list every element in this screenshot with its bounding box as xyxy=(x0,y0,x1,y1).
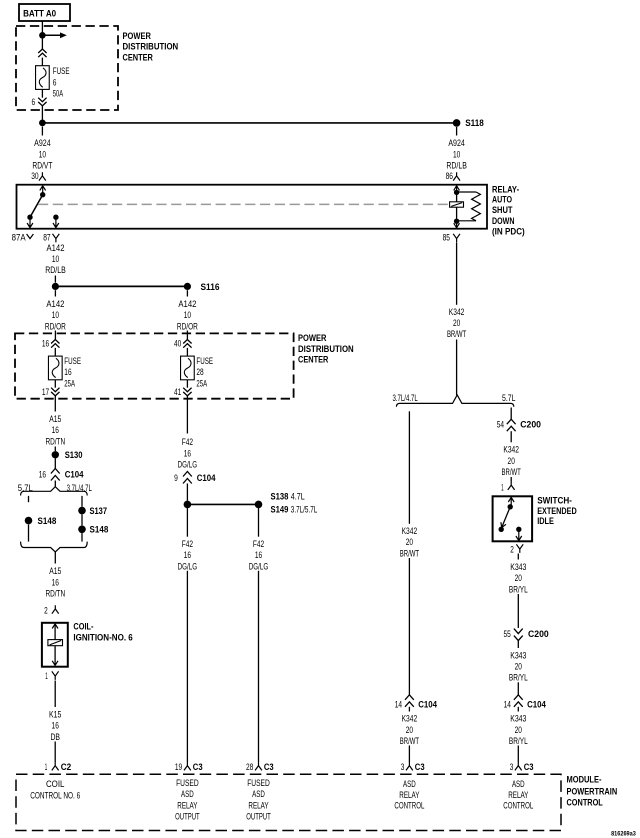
svg-text:3.7L/5.7L: 3.7L/5.7L xyxy=(291,504,318,514)
svg-text:816269a3: 816269a3 xyxy=(611,832,636,838)
svg-text:10: 10 xyxy=(453,149,460,159)
connector fork C3 pin 28 xyxy=(255,762,262,770)
options split brace right xyxy=(396,395,513,407)
connector chevrons below fuse 28 xyxy=(183,388,191,396)
svg-text:C3: C3 xyxy=(415,762,425,772)
svg-text:20: 20 xyxy=(406,725,413,735)
wire junction to connector xyxy=(41,39,43,50)
label MODULE-POWERTRAIN CONTROL xyxy=(567,775,618,808)
wire below C200 xyxy=(510,431,512,442)
relay pin 30 terminal arrow xyxy=(40,186,46,195)
svg-text:20: 20 xyxy=(515,725,522,735)
svg-text:28: 28 xyxy=(246,762,253,772)
wire to C104 pin 14 right xyxy=(517,682,519,695)
svg-text:10: 10 xyxy=(52,310,59,320)
svg-text:S138: S138 xyxy=(271,491,289,501)
svg-text:POWERTRAIN: POWERTRAIN xyxy=(567,786,618,796)
wire to PCM pin 3 right xyxy=(517,746,519,763)
switch pin 2 terminal arrow xyxy=(516,529,522,540)
wire fuse 6 out of PDC xyxy=(41,106,43,119)
svg-text:S149: S149 xyxy=(271,504,289,514)
wire to options split right xyxy=(456,340,458,396)
svg-text:F42: F42 xyxy=(253,539,264,549)
svg-text:1: 1 xyxy=(501,482,504,492)
wire stub below trunk junction xyxy=(41,127,43,136)
wire into PDC lower box right xyxy=(186,331,188,340)
wire from BATT A0 into PDC xyxy=(41,21,43,32)
coil ignition no 6 box xyxy=(42,623,68,667)
label POWER DISTRIBUTION CENTER (lower box) xyxy=(298,333,354,365)
wire label A142 10 RD/OR right xyxy=(177,299,198,331)
label asd relay control (right) xyxy=(503,779,533,811)
connector C104 chevrons far right xyxy=(514,695,523,707)
coil primary wire lower xyxy=(54,646,56,662)
svg-text:50A: 50A xyxy=(53,89,63,99)
power distribution center box (lower) xyxy=(15,333,294,398)
wire to C200 pin 55 xyxy=(517,594,519,628)
relay switch arm xyxy=(30,195,43,218)
svg-text:9: 9 xyxy=(174,473,178,483)
svg-text:BR/WT: BR/WT xyxy=(447,329,467,339)
wire below splice right xyxy=(258,508,260,537)
svg-text:A924: A924 xyxy=(448,138,465,148)
splice S116 right node xyxy=(184,283,191,290)
wire below fuse 28 xyxy=(186,380,188,388)
svg-text:S148: S148 xyxy=(38,516,57,526)
svg-text:4.7L: 4.7L xyxy=(291,491,305,501)
svg-text:A924: A924 xyxy=(34,138,51,148)
svg-text:CONTROL: CONTROL xyxy=(394,801,424,811)
svg-text:DOWN: DOWN xyxy=(492,216,515,226)
svg-text:3.7L/4.7L: 3.7L/4.7L xyxy=(67,483,92,493)
coil element symbol xyxy=(48,640,63,646)
wire below C104 left xyxy=(408,707,410,712)
svg-text:A15: A15 xyxy=(49,414,61,424)
wire label K342 20 BR/WT (lower) xyxy=(400,714,420,746)
wire stub above S130 xyxy=(54,447,56,452)
relay auto shut down box xyxy=(17,185,488,229)
svg-text:ASD: ASD xyxy=(181,789,194,799)
svg-text:3.7L/4.7L: 3.7L/4.7L xyxy=(393,393,418,403)
wire label K343 20 BR/YL (upper) xyxy=(509,562,528,594)
svg-text:C104: C104 xyxy=(197,473,216,483)
svg-text:CENTER: CENTER xyxy=(123,53,154,63)
svg-text:16: 16 xyxy=(52,425,59,435)
svg-text:25A: 25A xyxy=(196,378,207,388)
svg-text:6: 6 xyxy=(32,97,36,107)
splice S130 xyxy=(52,451,59,458)
svg-text:41: 41 xyxy=(174,387,181,397)
relay common node xyxy=(40,192,45,197)
svg-text:RD/LB: RD/LB xyxy=(446,161,467,171)
connector fork C3 pin 3 left xyxy=(406,762,413,770)
svg-text:BR/WT: BR/WT xyxy=(400,548,420,558)
relay pin 85 terminal arrow xyxy=(454,222,460,228)
svg-text:A142: A142 xyxy=(46,299,64,309)
connector fork C3 pin 19 xyxy=(184,762,191,770)
connector C200 chevrons xyxy=(507,419,516,431)
junction node under BATT A0 xyxy=(39,32,46,39)
svg-text:3: 3 xyxy=(401,762,405,772)
svg-text:16: 16 xyxy=(184,448,191,458)
trunk wire A924 horizontal xyxy=(42,122,456,124)
relay coil element xyxy=(450,202,464,207)
wire below fuse 16 xyxy=(54,380,56,388)
label RELAY-AUTO SHUT DOWN (IN PDC) xyxy=(492,184,525,236)
options split brace left xyxy=(21,487,88,496)
fuse 28 25A xyxy=(181,356,195,380)
label FUSE 6 50A xyxy=(53,66,70,98)
wire 5.7L branch to C200 xyxy=(510,408,512,420)
svg-text:20: 20 xyxy=(406,537,413,547)
svg-text:(IN PDC): (IN PDC) xyxy=(492,227,525,237)
wire into PDC lower box left xyxy=(54,331,56,340)
svg-text:RELAY: RELAY xyxy=(399,790,419,800)
wire 3.7L/4.7L branch down xyxy=(408,411,410,524)
wire label F42 16 DG/LG (top) xyxy=(178,437,198,469)
connector fork into relay pin 86 xyxy=(453,172,460,180)
fuse 16 25A xyxy=(48,356,62,380)
svg-text:AUTO: AUTO xyxy=(492,195,512,205)
connector chevrons above fuse 6 xyxy=(38,49,46,57)
svg-text:54: 54 xyxy=(497,420,504,430)
splice S137 xyxy=(78,507,86,515)
svg-text:1: 1 xyxy=(45,762,48,772)
svg-text:FUSED: FUSED xyxy=(247,778,270,788)
switch contact node bottom-left xyxy=(499,527,504,532)
svg-text:CONTROL NO. 6: CONTROL NO. 6 xyxy=(30,790,80,800)
junction node trunk left xyxy=(39,120,46,127)
svg-text:RELAY: RELAY xyxy=(248,800,268,810)
svg-text:5.7L: 5.7L xyxy=(502,393,516,403)
wire below splice left xyxy=(186,508,188,537)
svg-text:C3: C3 xyxy=(264,762,274,772)
wire stub below S118 xyxy=(456,127,458,136)
svg-text:16: 16 xyxy=(184,550,191,560)
options merge brace left xyxy=(21,542,88,552)
svg-text:30: 30 xyxy=(31,171,38,181)
svg-text:19: 19 xyxy=(175,762,182,772)
arrow feed to other circuits xyxy=(42,32,66,38)
svg-text:RELAY-: RELAY- xyxy=(492,184,519,194)
svg-text:POWER: POWER xyxy=(298,333,327,343)
svg-text:K343: K343 xyxy=(510,650,526,660)
wire to PCM pin 3 left xyxy=(408,746,410,763)
svg-text:COIL: COIL xyxy=(46,779,65,789)
svg-text:28: 28 xyxy=(196,367,203,377)
wire label A15 16 RD/TN upper xyxy=(45,414,65,446)
svg-text:BR/YL: BR/YL xyxy=(509,673,528,683)
svg-text:RELAY: RELAY xyxy=(177,800,197,810)
wire to fuse 28 xyxy=(186,348,188,356)
svg-text:MODULE-: MODULE- xyxy=(567,775,602,785)
wire long run to PCM pin 19 xyxy=(186,571,188,762)
svg-text:RD/OR: RD/OR xyxy=(177,321,198,331)
wire to fuse 16 xyxy=(54,348,56,356)
label fused asd relay output (pin 19) xyxy=(175,778,200,822)
connector chevrons above fuse 16 xyxy=(51,340,59,348)
svg-text:C3: C3 xyxy=(524,762,534,772)
wire connector to fuse 6 xyxy=(41,58,43,66)
wire C104 to splice xyxy=(186,484,188,501)
wire label F42 16 DG/LG (left branch) xyxy=(178,539,198,571)
svg-text:K342: K342 xyxy=(402,526,418,536)
svg-text:K342: K342 xyxy=(449,307,465,317)
svg-text:S116: S116 xyxy=(201,282,220,292)
svg-text:16: 16 xyxy=(42,339,49,349)
svg-text:CONTROL: CONTROL xyxy=(567,798,604,808)
wire below C104 right xyxy=(517,707,519,712)
wire label F42 16 DG/LG (right branch) xyxy=(249,539,269,571)
splice S148 (5.7L) xyxy=(25,517,33,525)
splice S116 wire horizontal xyxy=(55,285,187,287)
connector fork C3 pin 3 right xyxy=(515,762,522,770)
svg-text:OUTPUT: OUTPUT xyxy=(246,812,271,822)
label fused asd relay output (pin 28) xyxy=(246,778,271,822)
svg-text:10: 10 xyxy=(184,310,191,320)
svg-text:F42: F42 xyxy=(182,539,193,549)
svg-text:C104: C104 xyxy=(65,470,84,480)
connector fork into relay pin 30 xyxy=(39,172,46,180)
wire 5.7L branch upper xyxy=(28,496,30,502)
svg-text:20: 20 xyxy=(515,573,522,583)
svg-text:S118: S118 xyxy=(465,118,484,128)
svg-text:A142: A142 xyxy=(178,299,196,309)
svg-text:K343: K343 xyxy=(510,714,526,724)
label S149 3.7L/5.7L xyxy=(271,504,318,514)
relay pin 87A terminal arrow xyxy=(27,220,33,228)
svg-text:FUSE: FUSE xyxy=(64,356,81,366)
connector chevrons above fuse 28 xyxy=(183,340,191,348)
wire below C200 pin 55 xyxy=(517,641,519,648)
svg-text:DG/LG: DG/LG xyxy=(178,460,198,470)
svg-text:C104: C104 xyxy=(527,699,546,709)
connector C104 chevrons middle xyxy=(183,472,192,484)
svg-text:16: 16 xyxy=(64,367,71,377)
svg-text:K15: K15 xyxy=(49,709,61,719)
label coil control no 6 xyxy=(30,779,80,801)
relay pin 87A node xyxy=(27,215,32,220)
svg-text:ASD: ASD xyxy=(512,779,525,789)
relay coil wire xyxy=(456,192,458,221)
wire stub below S130 xyxy=(54,459,56,470)
svg-text:DG/LG: DG/LG xyxy=(178,561,198,571)
switch movable arm xyxy=(501,507,510,528)
wire label K343 20 BR/YL (middle) xyxy=(509,650,528,682)
wire label A924 10 RD/VT xyxy=(32,138,52,170)
switch contact node bottom-right xyxy=(516,527,521,532)
wire to PCM pin 1 xyxy=(54,742,56,763)
svg-text:A142: A142 xyxy=(47,243,65,253)
svg-text:F42: F42 xyxy=(182,437,193,447)
power distribution center box (top) xyxy=(16,26,118,110)
svg-text:85: 85 xyxy=(443,232,450,242)
svg-text:DG/LG: DG/LG xyxy=(249,561,269,571)
wire 3.7L/4.7L branch upper xyxy=(81,496,83,507)
label COIL-IGNITION-NO. 6 xyxy=(73,622,132,643)
wire label K342 20 BR/WT (5.7L) xyxy=(502,445,522,477)
svg-text:DISTRIBUTION: DISTRIBUTION xyxy=(123,42,179,52)
svg-text:RD/TN: RD/TN xyxy=(45,436,65,446)
svg-text:87: 87 xyxy=(43,232,50,242)
relay pin 87 node xyxy=(53,215,58,220)
svg-text:40: 40 xyxy=(174,339,181,349)
wire fuse 28 out of box xyxy=(186,396,188,434)
svg-text:S130: S130 xyxy=(65,450,83,460)
connector C104 chevrons right-left xyxy=(405,695,414,707)
connector fork below switch pin 2 xyxy=(516,544,523,553)
svg-text:POWER: POWER xyxy=(123,31,152,41)
svg-text:BATT A0: BATT A0 xyxy=(23,8,56,18)
svg-text:C200: C200 xyxy=(520,420,541,430)
svg-text:S137: S137 xyxy=(90,506,108,516)
svg-text:1: 1 xyxy=(45,671,48,681)
wire below merge xyxy=(54,552,56,564)
connector fork below relay pin 85 xyxy=(453,234,460,243)
wire label A924 10 RD/LB xyxy=(446,138,467,170)
switch contact node top xyxy=(508,504,513,509)
svg-text:CONTROL: CONTROL xyxy=(503,801,533,811)
label FUSE 28 25A xyxy=(196,356,213,388)
relay coil node top xyxy=(454,190,459,195)
connector fork C2 pin 1 xyxy=(52,762,59,770)
connector chevrons below fuse 16 xyxy=(51,388,59,396)
svg-text:20: 20 xyxy=(515,662,522,672)
splice S116 left node xyxy=(52,283,59,290)
wire label K343 20 BR/YL (lower) xyxy=(509,714,528,746)
svg-text:SWITCH-: SWITCH- xyxy=(537,496,572,506)
wire fuse 16 out of box xyxy=(54,396,56,412)
label FUSE 16 25A xyxy=(64,356,81,388)
wire label K342 20 BR/WT (upper) xyxy=(447,307,467,339)
svg-text:20: 20 xyxy=(453,318,460,328)
svg-text:EXTENDED: EXTENDED xyxy=(537,506,577,516)
switch pin 1 terminal arrow xyxy=(508,497,514,506)
svg-text:IDLE: IDLE xyxy=(537,516,554,526)
connector fork switch pin 1 xyxy=(508,482,515,490)
wire label A142 10 RD/LB xyxy=(45,243,66,275)
svg-text:16: 16 xyxy=(52,721,59,731)
svg-text:RD/LB: RD/LB xyxy=(45,265,66,275)
svg-text:COIL-: COIL- xyxy=(73,622,93,632)
relay pin 86 terminal arrow xyxy=(454,186,460,195)
wire run to C104 pin 14 left xyxy=(408,558,410,695)
svg-text:OUTPUT: OUTPUT xyxy=(175,812,200,822)
svg-text:ASD: ASD xyxy=(252,789,265,799)
connector fork below relay pin 87 xyxy=(53,234,60,243)
wire below coil xyxy=(54,681,56,708)
connector chevron below pin 87A xyxy=(27,234,34,239)
svg-text:A15: A15 xyxy=(49,566,61,576)
svg-text:BR/YL: BR/YL xyxy=(509,736,528,746)
splice S148 (3.7L/4.7L) xyxy=(78,526,86,534)
svg-text:2: 2 xyxy=(510,544,514,554)
wire label K342 20 BR/WT (3.7L/4.7L) xyxy=(400,526,420,558)
label S138 4.7L xyxy=(271,491,305,501)
svg-text:5.7L: 5.7L xyxy=(18,483,33,493)
wire below switch xyxy=(517,554,519,560)
relay actuation dashed link xyxy=(38,203,450,205)
svg-text:FUSE: FUSE xyxy=(53,66,70,76)
wire relay 85 down xyxy=(456,243,458,305)
svg-text:RD/TN: RD/TN xyxy=(45,589,65,599)
wire label A15 16 RD/TN lower xyxy=(45,566,65,598)
connector chevrons below fuse 6 xyxy=(38,98,46,106)
connector C104 chevrons left xyxy=(51,469,60,481)
svg-text:SHUT: SHUT xyxy=(492,205,513,215)
wire stub above S116 xyxy=(54,276,56,283)
coil pin 2 terminal arrow xyxy=(52,624,58,629)
coil pin 1 terminal arrow xyxy=(52,661,58,666)
svg-text:DB: DB xyxy=(50,732,60,742)
svg-text:BR/WT: BR/WT xyxy=(400,736,420,746)
coil primary wire upper xyxy=(54,628,56,640)
relay coil node bottom xyxy=(454,219,459,224)
svg-text:FUSE: FUSE xyxy=(196,356,213,366)
svg-text:BR/WT: BR/WT xyxy=(502,467,522,477)
wire 3.7L/4.7L branch lower xyxy=(81,533,83,542)
svg-text:3: 3 xyxy=(510,762,514,772)
BATT A0 power feed box xyxy=(19,4,70,21)
svg-text:C3: C3 xyxy=(193,762,203,772)
svg-text:FUSED: FUSED xyxy=(176,778,199,788)
wire label A142 10 RD/OR left xyxy=(45,299,66,331)
svg-text:DISTRIBUTION: DISTRIBUTION xyxy=(298,344,354,354)
svg-text:C200: C200 xyxy=(528,629,549,639)
svg-text:87A: 87A xyxy=(12,232,26,242)
svg-text:CENTER: CENTER xyxy=(298,355,329,365)
switch extended idle box xyxy=(493,496,532,541)
svg-text:17: 17 xyxy=(42,387,49,397)
splice wire horizontal S138/S149 xyxy=(187,503,258,505)
svg-text:IGNITION-NO. 6: IGNITION-NO. 6 xyxy=(73,632,132,642)
label asd relay control (left) xyxy=(394,779,424,811)
svg-text:RD/VT: RD/VT xyxy=(32,161,52,171)
label SWITCH-EXTENDED IDLE xyxy=(537,496,577,527)
wire long run to PCM pin 28 xyxy=(258,571,260,762)
svg-text:14: 14 xyxy=(395,699,402,709)
svg-text:10: 10 xyxy=(52,254,59,264)
svg-text:C104: C104 xyxy=(418,699,437,709)
svg-text:6: 6 xyxy=(53,77,57,87)
svg-text:C2: C2 xyxy=(61,762,71,772)
wire 5.7L branch lower xyxy=(28,525,30,542)
svg-text:20: 20 xyxy=(508,456,515,466)
svg-text:25A: 25A xyxy=(64,378,75,388)
wire stub to options split xyxy=(54,481,56,488)
connector fork into coil pin 2 xyxy=(52,605,59,613)
svg-text:16: 16 xyxy=(255,550,262,560)
wire stub below S116 right xyxy=(186,290,188,296)
svg-text:55: 55 xyxy=(504,629,511,639)
connector C200 chevrons down xyxy=(514,629,523,641)
module powertrain control box xyxy=(16,774,561,830)
label POWER DISTRIBUTION CENTER (top box) xyxy=(123,31,179,63)
wire to switch pin 1 xyxy=(510,477,512,482)
svg-text:RELAY: RELAY xyxy=(508,790,528,800)
svg-text:ASD: ASD xyxy=(403,779,416,789)
svg-text:2: 2 xyxy=(44,606,48,616)
svg-text:K342: K342 xyxy=(503,445,519,455)
svg-text:86: 86 xyxy=(446,171,453,181)
svg-text:16: 16 xyxy=(52,577,59,587)
svg-text:14: 14 xyxy=(504,699,511,709)
relay winding resistor xyxy=(457,192,481,221)
wire between S137 and S148 xyxy=(81,514,83,525)
svg-text:10: 10 xyxy=(39,149,46,159)
svg-text:K342: K342 xyxy=(402,714,418,724)
wire stub below S116 left xyxy=(54,290,56,296)
